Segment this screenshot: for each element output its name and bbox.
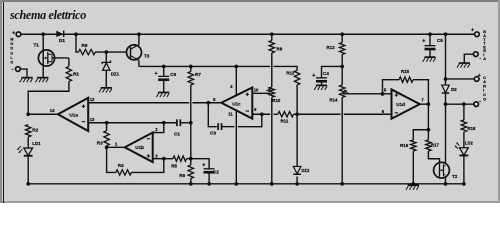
capacitor C4	[312, 71, 329, 81]
node D2/T2/output-row junction	[444, 102, 448, 106]
node C2 bus junction	[207, 182, 211, 186]
wire T3 collector	[138, 34, 140, 45]
wire T2 source to bus	[445, 177, 447, 184]
terminal MODULO +	[12, 30, 21, 36]
wire U1c pin9 row	[252, 113, 270, 115]
wire R2 to LD1	[27, 137, 29, 148]
wire CARICO + row	[446, 78, 475, 80]
node R5/R6/C2 junction	[189, 157, 193, 161]
capacitor C3	[210, 123, 222, 135]
svg-text:R16: R16	[400, 143, 409, 148]
node R18 junction	[462, 102, 466, 106]
wire R9 top lead	[271, 34, 273, 40]
label CARICO (vertical)	[483, 75, 486, 102]
wire C1 node to R5 node	[190, 123, 192, 159]
svg-text:C1: C1	[174, 132, 180, 137]
label MODULO (vertical)	[10, 38, 13, 65]
resistor R9	[269, 40, 283, 53]
wire R1 bottom to left rail	[28, 81, 69, 114]
wire CARICO - row	[446, 103, 475, 105]
node bus corner left	[26, 182, 30, 186]
op-amp U1c	[213, 84, 259, 118]
svg-text:-: -	[12, 67, 14, 73]
wire U1c pin11 ground stub	[235, 111, 237, 184]
ground C5	[423, 57, 436, 62]
title: schema elettrico	[10, 8, 86, 23]
resistor R15	[399, 69, 413, 82]
wire C1 right lead	[180, 122, 191, 124]
svg-text:R8: R8	[82, 43, 88, 48]
svg-text:14: 14	[50, 108, 55, 113]
svg-text:+: +	[155, 71, 158, 77]
svg-text:R15: R15	[401, 69, 410, 74]
wire BATTERIA - to ground	[464, 54, 473, 63]
capacitor C6	[155, 71, 177, 80]
terminal BATTERIA -	[473, 52, 481, 62]
svg-text:R18: R18	[467, 126, 476, 131]
svg-text:D2: D2	[451, 87, 457, 92]
node DZ2 bus junction	[295, 182, 299, 186]
svg-text:U1c: U1c	[232, 101, 241, 106]
svg-text:+: +	[471, 27, 474, 33]
svg-text:C5: C5	[437, 38, 443, 43]
wire pin9 to R11 (after crossover)	[273, 113, 278, 115]
svg-text:O: O	[10, 60, 13, 64]
resistor R7	[188, 71, 201, 85]
wire T1 drain-source column	[42, 34, 44, 77]
resistor R2	[26, 125, 39, 137]
wire T2 drain column	[445, 104, 447, 163]
svg-text:R9: R9	[276, 46, 282, 51]
svg-text:9: 9	[254, 107, 257, 112]
wire ground bus	[28, 183, 464, 185]
wire R13 to R14	[341, 54, 343, 84]
wire T3 emitter down	[138, 60, 140, 66]
capacitor C2	[202, 162, 219, 174]
svg-text:O: O	[483, 96, 486, 101]
wire R17 top lead	[427, 130, 429, 140]
terminal BATTERIA +	[471, 27, 479, 36]
wire R14 bottom to ground bus	[341, 97, 343, 183]
node U1c pin4 junction	[234, 65, 238, 69]
wire R3 leads	[106, 123, 108, 148]
wire R6 leads	[190, 159, 192, 184]
svg-text:C3: C3	[210, 131, 216, 136]
node C5 top junction	[428, 32, 432, 36]
resistor R1	[66, 66, 79, 81]
node C4 junction	[340, 65, 344, 69]
resistor R3	[97, 131, 110, 146]
wire R10 bottom to ground bus	[271, 97, 273, 184]
resistor R13	[327, 42, 345, 54]
wire C4 to ground	[321, 81, 323, 85]
wire LD1 to ground bus	[27, 156, 29, 184]
wire U1a pin13 row	[88, 122, 177, 124]
label BATTERIA (vertical)	[483, 30, 486, 61]
op-amp U1d	[382, 88, 425, 119]
diode D1	[56, 31, 65, 44]
ground C4	[314, 85, 327, 90]
wire DZ1 top lead	[105, 52, 107, 62]
node T1 drain junction	[41, 32, 45, 36]
svg-text:1: 1	[115, 141, 118, 146]
wire R12 node to pin6 (left of R14 crossover)	[297, 113, 341, 115]
svg-text:DZ1: DZ1	[111, 72, 120, 77]
wire R15 left riser	[383, 80, 400, 94]
wire R15 right to output	[413, 80, 428, 105]
svg-text:T2: T2	[452, 174, 458, 179]
svg-text:D1: D1	[59, 38, 65, 43]
wire C3 branch down	[208, 103, 216, 127]
wire R1 top lead	[68, 58, 70, 66]
wire R11 to R12 node	[294, 113, 298, 115]
wire D2 column from top rail	[445, 34, 447, 85]
wire U1b pin3 row	[153, 158, 173, 160]
wire C6 to ground	[163, 80, 165, 92]
wire R4 to pin3 riser	[131, 159, 163, 173]
svg-text:+: +	[478, 73, 481, 79]
wire R13 top lead	[341, 34, 343, 42]
wire R18 top lead	[463, 104, 465, 120]
node U1b pin2 junction	[162, 121, 166, 125]
resistor R4	[116, 163, 132, 175]
svg-text:-: -	[479, 98, 481, 104]
node D2 column top junction	[444, 32, 448, 36]
node output/R15/R16 junction	[427, 102, 431, 106]
wire D2 bottom lead	[445, 93, 447, 104]
wire DZ2 to ground bus	[296, 176, 298, 183]
wire C6 top lead	[163, 66, 165, 76]
LED LD1	[17, 141, 41, 156]
svg-text:R11: R11	[281, 119, 289, 124]
LED LD2	[455, 140, 474, 155]
wire R8 branch down	[76, 34, 79, 52]
svg-text:R5: R5	[171, 163, 177, 168]
resistor R11	[278, 112, 294, 124]
resistor R18	[461, 120, 476, 132]
pot R14	[329, 85, 345, 103]
svg-text:C4: C4	[323, 71, 329, 76]
svg-text:T1: T1	[34, 42, 40, 47]
svg-text:U1b: U1b	[135, 145, 144, 150]
wire U1b pin1 output	[107, 146, 125, 148]
wire U1a pin14 output	[28, 113, 58, 115]
node R16 bus junction	[411, 182, 415, 186]
node R16/R17 junction	[427, 128, 431, 132]
svg-text:R14: R14	[329, 98, 338, 103]
transistor T2	[434, 162, 458, 179]
wire T1 gate to R1	[52, 57, 69, 59]
svg-text:R17: R17	[431, 142, 440, 147]
svg-text:12: 12	[90, 97, 95, 102]
svg-text:2: 2	[155, 127, 158, 132]
node R10 bus junction	[270, 182, 274, 186]
svg-text:A: A	[483, 57, 486, 61]
wire MODULO - to ground	[20, 69, 27, 77]
pot R10 wiper arrow	[266, 89, 271, 92]
svg-text:+: +	[12, 30, 15, 36]
terminal CARICO +	[474, 73, 480, 81]
svg-text:13: 13	[90, 117, 95, 122]
wire U1a pin12 to U1c pin8 (left part)	[88, 102, 189, 104]
node T3 collector junction	[137, 32, 141, 36]
node R14 bus junction	[340, 182, 344, 186]
ground BATTERIA -	[457, 63, 470, 68]
wire R7 bottom to C1 node	[190, 85, 192, 123]
svg-text:11: 11	[228, 112, 233, 117]
node U1b output junction	[105, 145, 109, 149]
transistor T1	[34, 42, 55, 66]
wire C2 to ground bus	[208, 172, 210, 184]
svg-text:O: O	[10, 42, 13, 46]
wire C2 top lead	[191, 159, 209, 169]
svg-text:D: D	[10, 47, 13, 51]
node bus right end	[462, 182, 466, 186]
svg-text:M: M	[10, 38, 13, 42]
wire U1d pin7 output stub	[420, 103, 429, 105]
node R3 top junction	[105, 121, 109, 125]
node pin11 bus junction	[234, 182, 238, 186]
pot R10	[269, 87, 281, 103]
svg-text:8: 8	[213, 97, 216, 102]
wire R18 to LD2	[463, 132, 465, 148]
zener DZ1	[102, 61, 120, 77]
svg-text:U1d: U1d	[396, 102, 405, 107]
wire R9 to R10	[271, 53, 273, 87]
node R9 top junction	[270, 32, 274, 36]
svg-text:R3: R3	[97, 141, 103, 146]
wire R17 to T2 gate	[428, 151, 439, 164]
svg-text:R12: R12	[286, 71, 295, 76]
svg-text:R2: R2	[32, 128, 38, 133]
wire LD2 to ground bus	[463, 155, 465, 183]
wire DZ2 top lead	[296, 114, 298, 166]
svg-text:L: L	[10, 56, 13, 60]
wire U1c pin10 row	[252, 92, 270, 94]
ground MODULO -	[20, 78, 33, 83]
wire output down to R16/R17 node	[427, 104, 429, 130]
svg-text:+: +	[312, 73, 315, 79]
diode D2	[442, 85, 458, 93]
resistor R5	[171, 156, 186, 168]
ground C6	[156, 92, 169, 97]
node R8 branch junction	[74, 32, 78, 36]
node U1a output junction	[26, 112, 30, 116]
node pin9/C3 junction	[260, 112, 264, 116]
capacitor C1	[174, 119, 180, 136]
node R4/R5 junction	[162, 157, 166, 161]
wire top rail (+V battery rail)	[21, 33, 475, 35]
wire branch to R16	[413, 130, 428, 140]
svg-text:5: 5	[384, 88, 387, 93]
svg-text:R1: R1	[73, 71, 79, 76]
node R13 top junction	[340, 32, 344, 36]
wire U1b feedback loop to R4	[107, 147, 116, 172]
wire C4 top lead	[322, 66, 343, 77]
wire supply rail from T3 emitter	[139, 65, 270, 67]
svg-text:C2: C2	[213, 169, 219, 174]
node DZ1 junction	[104, 50, 108, 54]
wire U1b pin2 riser	[153, 123, 164, 133]
ground DZ1	[99, 88, 112, 93]
resistor R8	[79, 43, 96, 55]
node R11/R12/DZ2 junction	[295, 112, 299, 116]
svg-text:6: 6	[382, 109, 385, 114]
zener DZ2	[293, 166, 310, 174]
ground bus symbol	[406, 185, 419, 190]
node R7 junction	[189, 65, 193, 69]
wire pin6 row (right part)	[344, 113, 392, 115]
svg-text:R4: R4	[118, 163, 124, 168]
node CARICO+ junction	[444, 77, 448, 81]
wire U1a pin12 to U1c pin8 (right part)	[192, 102, 221, 104]
svg-text:R13: R13	[327, 45, 336, 50]
ground T1 source	[35, 78, 48, 83]
wire C5 to ground	[429, 49, 431, 57]
svg-text:C6: C6	[170, 72, 176, 77]
wire R16 to ground bus	[412, 151, 414, 184]
node C3 branch junction	[206, 101, 210, 105]
wire R14 wiper to pin5	[343, 93, 392, 95]
node R6 bus junction	[189, 182, 193, 186]
svg-text:R6: R6	[179, 173, 185, 178]
svg-text:LD1: LD1	[32, 141, 41, 146]
resistor R17	[426, 140, 440, 151]
svg-text:-: -	[479, 55, 481, 61]
svg-text:7: 7	[421, 98, 424, 103]
pot R14 wiper arrow	[344, 90, 349, 94]
wire R5 to R6 node	[187, 158, 191, 160]
svg-text:3: 3	[155, 153, 158, 158]
svg-text:+: +	[202, 162, 205, 168]
svg-text:R7: R7	[195, 72, 201, 77]
wire supply rail right part (after R9 column crossover)	[273, 66, 297, 70]
wire R7 top lead	[190, 66, 192, 71]
svg-text:T3: T3	[144, 53, 150, 58]
wire C3 to pin9 (left of pin11 crossover)	[222, 126, 235, 128]
node T2 bus junction	[444, 182, 448, 186]
wire R8 to T3 base	[95, 51, 126, 53]
svg-text:U1a: U1a	[69, 113, 78, 119]
op-amp U1b	[115, 127, 158, 162]
resistor R16	[400, 140, 416, 151]
wire C3 to pin9 (right part)	[238, 114, 262, 126]
wire DZ1 to ground	[105, 70, 107, 87]
wire C5 top lead	[429, 34, 431, 45]
wire U1c pin4 power stub	[235, 66, 237, 96]
transistor T3	[127, 45, 150, 61]
svg-text:LD2: LD2	[465, 140, 474, 145]
wire R12 bottom	[296, 85, 298, 114]
capacitor C5	[422, 38, 443, 49]
node C6 junction	[162, 65, 166, 69]
svg-text:R10: R10	[272, 98, 281, 103]
svg-text:+: +	[422, 38, 425, 44]
terminal CARICO -	[474, 98, 481, 106]
terminal MODULO -	[12, 67, 21, 73]
resistor R12	[286, 70, 300, 85]
node C1 right junction	[189, 121, 193, 125]
svg-text:DZ2: DZ2	[301, 168, 310, 173]
op-amp U1a	[50, 97, 95, 131]
node R15 branch junction	[381, 92, 385, 96]
svg-text:U: U	[10, 51, 13, 55]
svg-text:10: 10	[254, 88, 259, 93]
svg-text:4: 4	[230, 84, 233, 89]
resistor R6	[179, 165, 193, 179]
